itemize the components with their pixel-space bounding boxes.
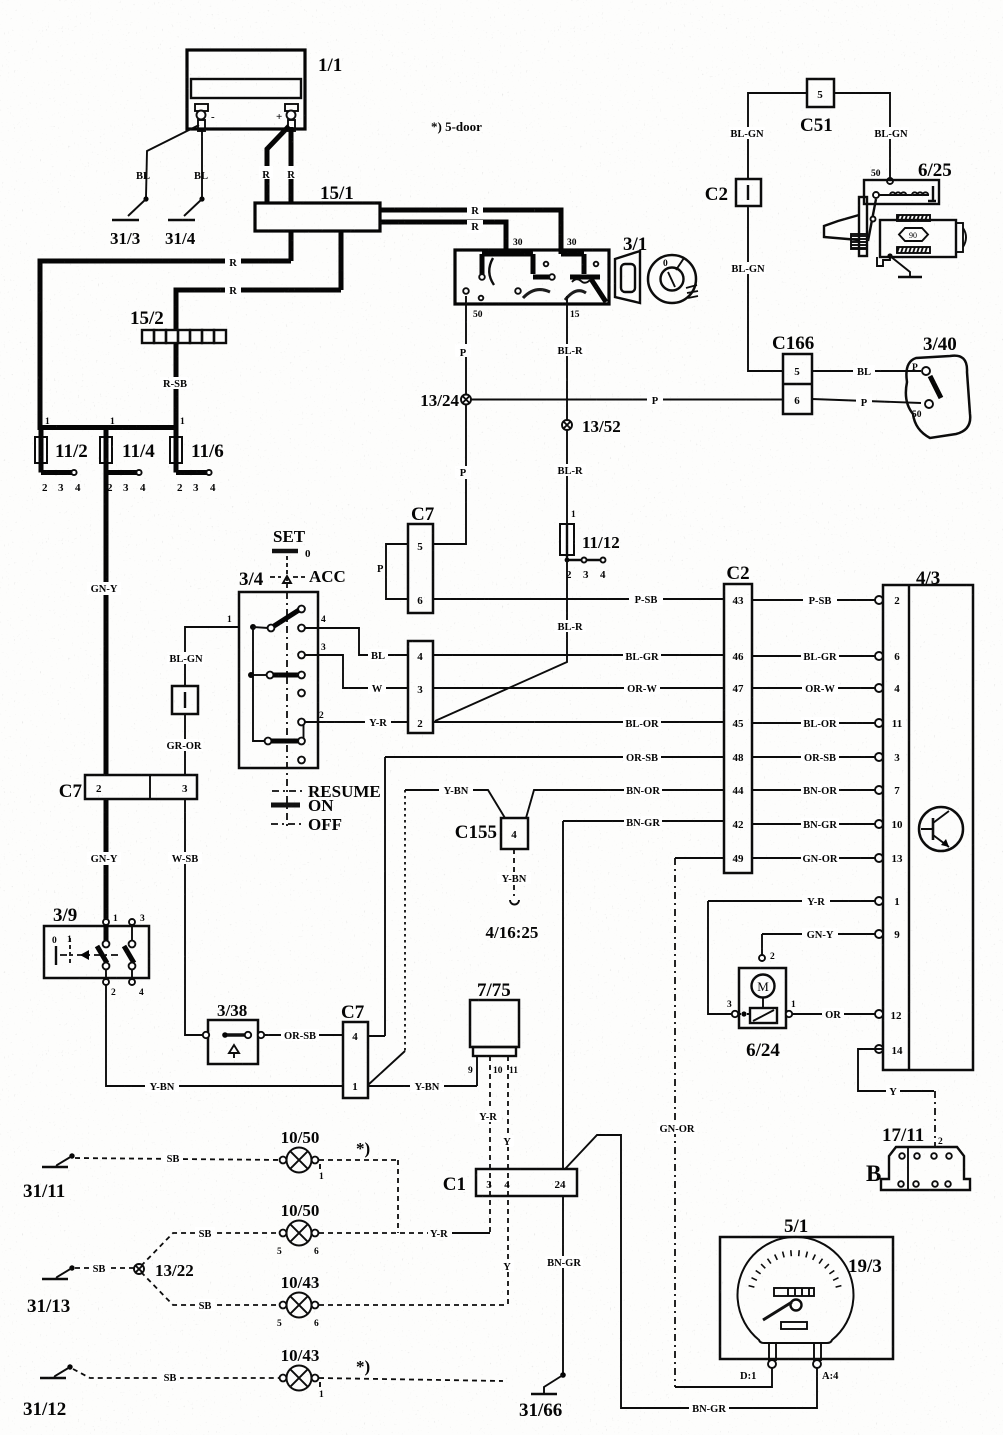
wire Y 4/3 pin 14 to 17/11	[858, 1045, 943, 1147]
wire OR-SB 3/38 to C7 pin 4	[264, 1029, 343, 1042]
wire GN-Y to 4/3 pin 9	[762, 928, 900, 941]
instrument cluster 5/1	[720, 1216, 893, 1359]
wire SB splice 13/22 to lamp 10/43	[141, 1272, 282, 1312]
wire OR-W C2 to 4/3 pin 4	[752, 682, 900, 695]
wire 3/4 pin 1 to connector 1	[167, 615, 239, 686]
wire GN-OR C2 to 4/3 pin 13	[752, 852, 903, 865]
wire lamp 10/50 to lamp row 2	[319, 1160, 398, 1233]
wire Y-BN C7 pin 1 to 7/75 pin 9	[368, 1080, 477, 1093]
wire Y-R 7/75 pin 10 to lamp row (via C1 pin 3)	[475, 1056, 501, 1233]
ground (starter 6/25)	[898, 276, 922, 278]
wire P C166 pin 6 to 3/40	[812, 394, 921, 409]
starter motor 6/25	[824, 160, 966, 266]
wire Y 7/75 pin 11 to lamp row (via C1 pin 4)	[500, 1056, 514, 1305]
wire R battery plus to 15/1 (right lead)	[284, 127, 298, 203]
wire BN-GR vertical to C1 pin 24	[562, 821, 564, 1169]
wire GR-OR connector 1 to C7 pin 3	[165, 714, 203, 775]
ground 31/12	[23, 1364, 73, 1420]
wire BL-GR connector pin 4 to C2 pin 46	[433, 650, 724, 663]
wire BL C166 pin 5 to 3/40	[812, 365, 921, 378]
splice 13/22	[134, 1261, 194, 1280]
wire BL battery minus to ground 31/3	[128, 125, 199, 216]
wire BN-GR row to C2 pin 42	[563, 816, 724, 829]
wire lamp 10/43 dashed stub	[319, 1378, 503, 1381]
fuse bus wire	[40, 425, 176, 430]
connector C7 (pins 4,1)	[341, 1002, 368, 1098]
wire SB splice 13/22 to lamp 10/50	[141, 1227, 282, 1266]
wire starter 6/25 to ground	[887, 253, 910, 276]
lamp 10/50	[280, 1128, 371, 1182]
wire R row 2 to fuse strip 15/2	[176, 284, 341, 330]
wire lamp 10/43 to Y branch	[319, 1304, 508, 1306]
switch 3/40	[906, 334, 970, 438]
wire R battery plus to 15/1 (left lead)	[259, 126, 289, 203]
switch 3/38	[203, 1001, 264, 1064]
connector C7 (pins 2,3)	[59, 775, 197, 802]
fuse 11/6	[170, 417, 224, 494]
wire GN-OR corner to C2 pin 49	[675, 857, 724, 859]
transistor (inside 4/3)	[919, 807, 963, 851]
wire Y-R vertical to 6/24 pin 3	[708, 901, 731, 1014]
wire OR-SB C2 to 4/3 pin 3	[752, 751, 900, 764]
lamp 10/43	[277, 1273, 319, 1329]
wire 15/1 to R bus row 1	[289, 231, 294, 261]
wire Y-BN 3/9 pin 2 to C7 pin 1	[106, 985, 343, 1093]
wire OR-SB to C2 pin 48	[385, 751, 724, 764]
ground 31/4	[165, 220, 196, 248]
wire W-SB C7 pin 3 to switch 3/38	[168, 799, 203, 1035]
connector C51	[800, 79, 834, 136]
fuse 11/12	[560, 510, 620, 581]
wire GN-Y C7 pin 2 to switch 3/9 pin 1	[87, 799, 121, 922]
wire BL-GN C2 to C166 pin 5	[730, 206, 783, 371]
wire BL-OR C2 to 4/3 pin 11	[752, 717, 902, 730]
fuse 11/2	[35, 417, 88, 494]
wire OR 6/24 pin 1 to 4/3 pin 12	[792, 1008, 902, 1022]
wire P 13/24 to C166 pin 6	[471, 392, 783, 407]
fuse 11/4	[100, 417, 155, 494]
wire BN-OR C2 to 4/3 pin 7	[752, 784, 900, 797]
lamp 10/43	[280, 1346, 371, 1400]
ground 31/3	[110, 220, 140, 248]
cruise control module 4/3	[883, 568, 973, 1070]
connector C1	[443, 1169, 577, 1196]
servo motor 6/24	[727, 968, 796, 1061]
wire BL-R fuse 11/12 to connector pin 2	[435, 560, 586, 721]
fuse box 15/1	[255, 183, 380, 231]
ground 31/13	[27, 1265, 75, 1317]
control unit 7/75	[468, 980, 519, 1076]
wire P ignition 50 to C7 pin 5	[433, 296, 471, 544]
cruise control switch 3/4	[239, 527, 381, 834]
wire Y-BN below C155 to splice 4/16:25	[497, 849, 531, 896]
wire SB ground 31/11 to lamp 10/50	[75, 1152, 282, 1165]
wire R row 1 to fuse 11/2	[40, 254, 291, 430]
wire BN-GR C1 pin 24 to speedometer A:4	[565, 1135, 817, 1415]
wire R 15/1 to ignition 3/1 terminal 30 (upper)	[380, 204, 561, 254]
ground 31/11	[23, 1153, 75, 1202]
wire Y-BN / BN-OR row to C2 pin 44	[405, 784, 724, 818]
wire P loop C7 pin5 to pin6	[377, 544, 408, 599]
connector C2 (single pin)	[705, 179, 761, 206]
wire BL-GR C2 to 4/3 pin 6	[752, 650, 900, 663]
speedometer 19/3 gauge	[738, 1237, 854, 1382]
wire W 3/4 pin 3 to connector pin 3	[305, 655, 408, 695]
wire P-SB C7 pin 6 to C2 pin 43	[433, 593, 724, 606]
wire P-SB C2 to 4/3 pin 2	[752, 594, 900, 607]
wire BL-GN C51 to starter 6/25 terminal 50	[834, 93, 909, 184]
wire 15/1 to R bus row 2	[339, 231, 344, 290]
wire BL 3/4 pin 4 to connector pin 4	[305, 628, 408, 662]
wire OR-SB vertical to C7 pin 4	[384, 757, 386, 1036]
wire OR-W connector pin 3 to C2 pin 47	[433, 682, 724, 695]
wire SB ground 31/13 to splice 13/22	[75, 1262, 134, 1275]
wire R 15/1 to ignition 3/1 terminal 30 (lower)	[380, 220, 506, 254]
battery 1/1	[187, 50, 342, 131]
fuse strip 15/2	[130, 308, 226, 343]
wire C7 pin 4 to OR-SB vertical	[368, 1035, 385, 1037]
splice 13/24	[420, 391, 471, 410]
wire BL-GN C51 to C2	[729, 93, 807, 179]
connector 1 (single pin box)	[172, 686, 198, 714]
wire 7/75 pin 9 lead	[476, 1056, 478, 1086]
wire BN-GR C2 to 4/3 pin 10	[752, 818, 903, 831]
wire BL-OR connector pin 2 to C2 pin 45	[433, 717, 724, 730]
connector C2 (main strip)	[724, 563, 752, 873]
connector C155	[455, 818, 528, 849]
wire BL battery minus to ground 31/4	[184, 131, 208, 216]
wire Y-R lamp 10/50 to C1 pin 3 branch	[319, 1229, 490, 1240]
wire Y-R 3/4 pin 2 to connector pin 2	[305, 716, 408, 729]
connector C7 (pins 5,6)	[408, 504, 435, 613]
connector 17/11 (B)	[866, 1125, 970, 1190]
wire Y-BN dashed to C7 pin 1 (via diagonal)	[368, 790, 405, 1085]
wire GN-OR C2 pin 49 to speedometer D:1	[657, 858, 772, 1387]
lamp 10/50	[277, 1201, 319, 1257]
connector (pins 4,3,2)	[408, 641, 433, 733]
switch 3/9	[44, 905, 149, 998]
splice 4/16:25	[486, 900, 539, 942]
wire BN-GR C1 pin 24 to ground 31/66	[545, 1196, 583, 1373]
wire R-SB 15/2 to fuse bus	[160, 343, 190, 430]
wire GN-Y to 6/24 pin 2	[759, 934, 775, 962]
wire Y-R to 4/3 pin 1	[708, 895, 900, 908]
wire BL-R ignition 15 to fuse 11/12	[554, 296, 586, 524]
ignition switch 3/1	[455, 234, 698, 320]
wire SB ground 31/12 to lamp 10/43	[73, 1369, 282, 1384]
connector C166	[772, 333, 814, 414]
splice 13/52	[562, 417, 621, 436]
wire GN-Y fuse 11/4 to connector C7 pin 2	[87, 472, 121, 775]
ground 31/66	[519, 1372, 566, 1421]
